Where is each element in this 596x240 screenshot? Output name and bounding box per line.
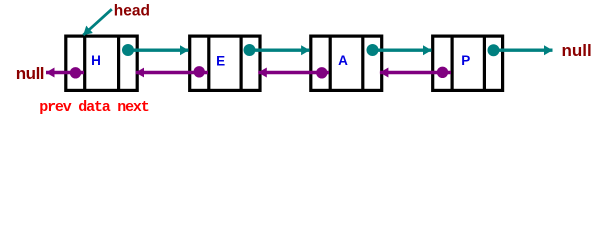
svg-text:null: null: [562, 41, 592, 60]
svg-text:A: A: [338, 53, 348, 68]
svg-text:null: null: [16, 64, 44, 83]
svg-text:E: E: [216, 53, 225, 68]
svg-text:P: P: [461, 53, 470, 68]
svg-text:head: head: [114, 3, 150, 20]
svg-text:prev data next: prev data next: [39, 99, 148, 116]
svg-text:H: H: [91, 53, 101, 68]
